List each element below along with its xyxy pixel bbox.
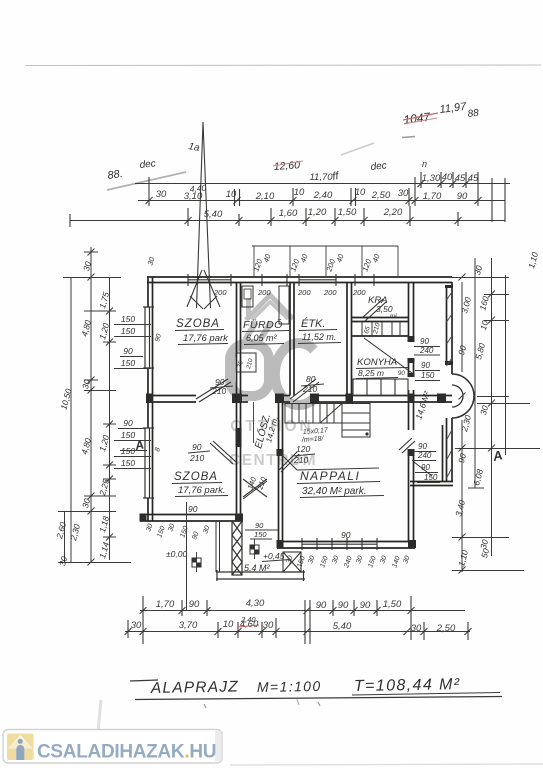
svg-text:90: 90	[421, 361, 430, 370]
svg-text:90: 90	[338, 600, 349, 611]
svg-text:90: 90	[123, 418, 133, 428]
svg-text:150: 150	[121, 358, 135, 368]
svg-text:FÜRDŐ: FÜRDŐ	[243, 317, 283, 331]
svg-text:90: 90	[341, 530, 351, 540]
slash ticks bottom rows	[125, 607, 472, 635]
svg-text:90: 90	[316, 600, 327, 611]
svg-text:11,52 m.: 11,52 m.	[302, 332, 336, 342]
left wall window upper	[145, 307, 150, 368]
dim line B	[138, 200, 505, 202]
faint pencil mark right	[341, 143, 374, 155]
svg-text:1,20: 1,20	[308, 207, 327, 218]
tick x236 double	[234, 189, 236, 206]
svg-text:4,40: 4,40	[189, 183, 207, 194]
svg-text:150: 150	[121, 326, 135, 336]
left outer wall	[147, 277, 149, 521]
svg-text:90: 90	[192, 442, 202, 452]
top outer wall	[147, 276, 452, 278]
closet under FURDO	[236, 353, 256, 372]
svg-text:90: 90	[189, 599, 200, 610]
kitchen counters	[353, 379, 408, 396]
svg-text:M=1:100: M=1:100	[257, 678, 322, 695]
top dimension block	[70, 172, 510, 227]
faint marks under title	[204, 704, 206, 708]
svg-text:17,76 park.: 17,76 park.	[178, 485, 226, 496]
pencil stroke left	[107, 172, 186, 190]
door SZOBA1 diagonals	[196, 379, 228, 399]
watermark C glyph	[275, 343, 315, 405]
left wall window lower	[145, 428, 150, 498]
porch post hatched	[232, 521, 242, 575]
window dims lower left	[121, 418, 135, 468]
dim line A	[135, 183, 510, 185]
svg-text:90: 90	[360, 600, 371, 611]
tick x353 double	[350, 188, 352, 206]
svg-text:90: 90	[457, 191, 468, 202]
KRA door diagonal	[362, 299, 383, 318]
porch side line	[219, 521, 221, 572]
top inner dim line	[252, 245, 398, 247]
lower right door labels	[417, 442, 438, 482]
svg-text:200: 200	[297, 288, 311, 297]
benchmark symbol 0,45	[250, 539, 259, 559]
corridor bottom door X leaf	[243, 479, 267, 497]
svg-text:3,70: 3,70	[179, 620, 198, 631]
svg-text:30: 30	[156, 189, 167, 200]
svg-text:1,60: 1,60	[279, 208, 298, 219]
svg-text:32,40 M² park.: 32,40 M² park.	[302, 486, 366, 497]
svg-text:90: 90	[123, 346, 133, 356]
svg-text:5,40: 5,40	[333, 621, 352, 632]
door swing diagonals right wing	[399, 438, 412, 450]
NAPPALI bottom wall	[277, 541, 415, 543]
svg-text:150: 150	[424, 473, 438, 482]
KRA bottom wall	[352, 317, 408, 319]
window dims upper left	[121, 314, 135, 368]
wall piers	[140, 285, 454, 548]
room divider SZOBA1 right (V1)	[236, 282, 238, 515]
svg-text:1,30: 1,30	[422, 173, 441, 184]
svg-text:2,50: 2,50	[371, 190, 391, 201]
porch dim leaders	[245, 529, 278, 531]
svg-text:2,40: 2,40	[240, 615, 256, 624]
corridor right wall lower (V2l)	[278, 402, 280, 541]
window ticks on top wall	[188, 274, 374, 286]
svg-text:88.: 88.	[107, 168, 124, 182]
svg-text:80: 80	[306, 374, 316, 384]
svg-text:90: 90	[420, 337, 429, 346]
svg-text:10: 10	[226, 189, 237, 200]
svg-text:240: 240	[417, 451, 432, 460]
stairs	[285, 404, 370, 438]
shaft inner line	[442, 425, 444, 481]
closet band line	[352, 335, 408, 337]
door X corridor-NAPPALI	[279, 452, 297, 470]
svg-text:210: 210	[189, 453, 204, 463]
benchmark symbol 0,00	[192, 552, 201, 572]
svg-text:90: 90	[418, 442, 427, 451]
slash ticks left column	[88, 249, 114, 566]
svg-text:4,30: 4,30	[246, 598, 265, 609]
svg-text:NAPPALI: NAPPALI	[300, 469, 360, 483]
svg-text:8,25 m: 8,25 m	[358, 368, 384, 378]
svg-text:120: 120	[296, 444, 310, 454]
rotated dims below SZOBA2 wall	[145, 523, 211, 541]
svg-text:150: 150	[121, 314, 135, 324]
slash ticks right column	[459, 274, 496, 574]
svg-text:150: 150	[421, 371, 435, 380]
door ETK diagonals	[290, 379, 316, 399]
svg-text:210: 210	[293, 455, 308, 465]
logo house icon	[7, 734, 34, 761]
middle wall (H mid)	[147, 395, 196, 397]
svg-text:1,50: 1,50	[383, 599, 402, 610]
svg-text:30: 30	[411, 623, 422, 634]
wall ETK right (V3)	[346, 282, 348, 396]
wall FURDO right upper (V2u)	[289, 282, 291, 396]
grey dash under 1047	[402, 137, 415, 138]
svg-text:240: 240	[419, 346, 434, 355]
svg-text:45: 45	[468, 173, 479, 184]
tick x409	[408, 188, 410, 206]
svg-text:12,60: 12,60	[273, 159, 300, 173]
logo button	[3, 730, 222, 764]
svg-text:90: 90	[398, 371, 405, 377]
left dim vertical mid	[90, 247, 92, 563]
watermark roof chevron	[246, 295, 293, 320]
svg-text:1,50: 1,50	[338, 207, 357, 218]
wall KONYHA right (V4)	[408, 282, 410, 341]
svg-text:T=108,44 M²: T=108,44 M²	[354, 676, 461, 695]
watermark group Otthon Centrum	[229, 295, 317, 469]
corridor door jamb thin line	[253, 402, 255, 443]
svg-text:n: n	[422, 159, 427, 169]
KRA closet divisions	[362, 322, 400, 337]
row C ticks	[187, 208, 189, 226]
svg-text:2,40: 2,40	[313, 190, 333, 201]
ticks row A right	[420, 172, 422, 188]
antenna spike	[187, 122, 220, 309]
door SZOBA2 diagonals	[213, 441, 236, 462]
svg-text:ALAPRAJZ: ALAPRAJZ	[150, 678, 239, 697]
200 labels under top wall	[213, 288, 366, 297]
NAPPALI right wall lower	[408, 455, 410, 541]
svg-text:1,70: 1,70	[156, 599, 175, 610]
svg-text:2,50: 2,50	[436, 623, 456, 634]
svg-text:90: 90	[188, 504, 198, 514]
left bottom extra vertical	[64, 511, 66, 563]
faint top scan rule	[25, 64, 541, 67]
SZOBA2 bottom wall	[140, 514, 243, 516]
right door labels 90 240	[419, 337, 435, 380]
right outer wall	[446, 287, 448, 364]
door X box porch right	[283, 552, 301, 572]
rotated dims above top wall	[145, 252, 382, 274]
svg-text:1,70: 1,70	[423, 191, 442, 202]
svg-text:150: 150	[121, 458, 135, 468]
porch slab	[216, 570, 305, 581]
bottom faint rule	[230, 764, 543, 765]
svg-text:SZOBA: SZOBA	[174, 471, 218, 483]
bay window arcs	[452, 374, 474, 418]
svg-text:200: 200	[213, 288, 227, 297]
bottom ticks	[142, 596, 144, 644]
svg-text:88: 88	[467, 108, 480, 120]
svg-text:5,4 M²: 5,4 M²	[244, 563, 271, 573]
svg-text:SZOBA: SZOBA	[176, 318, 220, 330]
left dim vertical 10,50	[70, 278, 72, 563]
svg-text:30: 30	[131, 620, 142, 631]
shaft bottom connect	[410, 481, 453, 483]
svg-text:2,20: 2,20	[383, 207, 403, 218]
tick x415	[414, 177, 416, 206]
tick x293	[292, 188, 294, 206]
bathroom fixtures	[242, 286, 253, 307]
bottom dim line E	[125, 631, 470, 633]
right wall hatch	[447, 292, 453, 478]
svg-text:dec: dec	[139, 158, 156, 171]
rotated dims below NAPPALI wall	[285, 555, 411, 570]
left dim vertical inner	[109, 278, 111, 560]
svg-text:10: 10	[355, 187, 366, 198]
svg-text:200: 200	[323, 288, 337, 297]
slash ticks top rows	[146, 180, 482, 224]
watermark chimney	[246, 298, 251, 319]
left horizontal ticks	[63, 277, 121, 279]
svg-text:ÉTK.: ÉTK.	[301, 317, 325, 330]
svg-text:45: 45	[455, 173, 466, 184]
svg-text:10: 10	[223, 619, 234, 630]
svg-text:30: 30	[398, 188, 409, 199]
svg-text:6,05 m²: 6,05 m²	[246, 333, 278, 343]
svg-text:dec: dec	[370, 160, 387, 173]
faint streak above button	[98, 700, 101, 732]
watermark O ring	[230, 344, 269, 396]
svg-text:10: 10	[294, 187, 305, 198]
svg-text:11,70: 11,70	[309, 172, 333, 183]
svg-text:2,10: 2,10	[255, 191, 275, 202]
svg-text:+0,45: +0,45	[263, 551, 285, 561]
svg-text:CSALADIHAZAK.HU: CSALADIHAZAK.HU	[37, 742, 216, 763]
watermark double acute accents	[245, 322, 256, 340]
window ticks bottom NAPPALI wall	[302, 538, 377, 550]
svg-text:KONYHA: KONYHA	[357, 357, 397, 368]
tick x149	[148, 177, 150, 206]
svg-text:90: 90	[255, 521, 264, 530]
title underlines	[352, 693, 500, 696]
svg-text:200: 200	[352, 288, 366, 297]
svg-text:150: 150	[254, 530, 267, 539]
long tick below szoba2	[186, 502, 188, 611]
svg-text:200: 200	[257, 288, 271, 297]
svg-text:±0,00: ±0,00	[166, 549, 187, 559]
kitchen leader diagonal	[364, 338, 412, 373]
bottom dim line D	[140, 610, 465, 612]
dim line C	[70, 220, 505, 222]
svg-text:17,76 park: 17,76 park	[183, 333, 229, 344]
svg-text:m²: m²	[390, 314, 398, 320]
